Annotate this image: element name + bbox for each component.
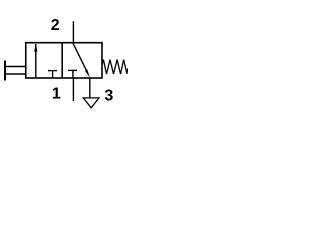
return spring [102,60,128,74]
wire port 2 [72,21,74,43]
push-button actuator rail bottom [4,73,26,75]
push-button actuator plate [4,61,6,81]
wire port 1 [72,78,74,101]
svg-text:3: 3 [104,87,113,104]
flow path arrow 1->2 (left box) [34,44,37,78]
blocked port T (right box) [68,70,77,78]
exhaust triangle port 3 [83,98,99,108]
wire port 3 [89,78,91,98]
svg-text:2: 2 [51,17,60,34]
push-button actuator rail top [4,66,26,68]
position divider [61,43,63,78]
valve body V1 (3/2-way valve, two position boxes) [26,43,102,78]
svg-text:1: 1 [52,86,61,103]
flow path arrow 2->3 diagonal (right box) [73,43,90,77]
blocked port T (left box) [48,71,57,78]
